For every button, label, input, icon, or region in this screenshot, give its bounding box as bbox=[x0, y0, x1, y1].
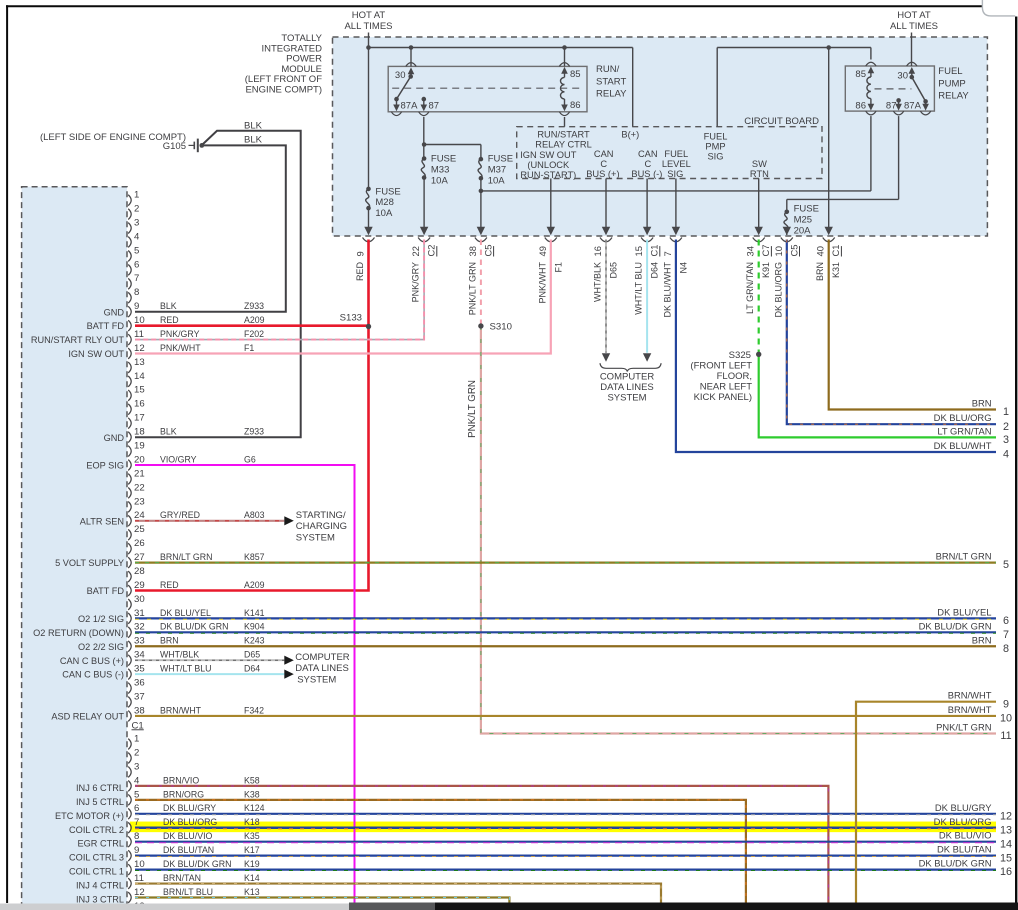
svg-text:M25: M25 bbox=[794, 214, 812, 225]
svg-text:11: 11 bbox=[134, 329, 144, 340]
svg-text:FUEL: FUEL bbox=[704, 132, 728, 142]
svg-text:22: 22 bbox=[134, 482, 145, 493]
svg-text:A209: A209 bbox=[244, 315, 265, 325]
svg-text:CHARGING: CHARGING bbox=[296, 521, 347, 532]
svg-text:K124: K124 bbox=[244, 803, 265, 813]
svg-text:9: 9 bbox=[134, 845, 139, 856]
svg-text:M33: M33 bbox=[431, 164, 449, 175]
svg-text:BATT FD: BATT FD bbox=[87, 586, 125, 596]
svg-text:(FRONT LEFT: (FRONT LEFT bbox=[690, 360, 752, 371]
svg-text:1: 1 bbox=[1003, 406, 1009, 418]
svg-text:F1: F1 bbox=[244, 343, 254, 353]
svg-text:RUN/START RLY OUT: RUN/START RLY OUT bbox=[31, 335, 124, 345]
svg-text:10A: 10A bbox=[488, 175, 506, 186]
svg-text:RTN: RTN bbox=[750, 169, 769, 179]
svg-text:O2 1/2 SIG: O2 1/2 SIG bbox=[78, 614, 124, 624]
svg-text:F1: F1 bbox=[553, 262, 563, 273]
svg-text:9: 9 bbox=[1003, 698, 1009, 710]
svg-text:DK BLU/GRY: DK BLU/GRY bbox=[935, 802, 992, 813]
svg-text:PNK/WHT: PNK/WHT bbox=[160, 343, 201, 353]
svg-text:FUEL: FUEL bbox=[938, 66, 962, 77]
svg-text:FUSE: FUSE bbox=[794, 204, 819, 215]
svg-text:HOT AT: HOT AT bbox=[897, 10, 931, 21]
svg-text:FUSE: FUSE bbox=[375, 186, 400, 197]
svg-text:49: 49 bbox=[537, 246, 548, 256]
svg-text:BRN/LT GRN: BRN/LT GRN bbox=[936, 551, 992, 562]
svg-text:BLK: BLK bbox=[160, 301, 177, 311]
svg-text:SIG: SIG bbox=[667, 169, 683, 179]
svg-text:PNK/WHT: PNK/WHT bbox=[537, 262, 547, 304]
svg-text:K17: K17 bbox=[244, 845, 260, 855]
svg-text:K91: K91 bbox=[761, 262, 771, 278]
svg-text:38: 38 bbox=[134, 705, 145, 716]
svg-text:CAN C BUS (+): CAN C BUS (+) bbox=[60, 656, 124, 666]
svg-text:C5: C5 bbox=[482, 245, 493, 257]
svg-text:COMPUTER: COMPUTER bbox=[600, 372, 655, 383]
svg-text:24: 24 bbox=[134, 510, 145, 521]
svg-text:K141: K141 bbox=[244, 608, 265, 618]
svg-text:1: 1 bbox=[134, 190, 139, 201]
svg-text:Z933: Z933 bbox=[244, 427, 264, 437]
svg-text:RUN-START): RUN-START) bbox=[520, 170, 576, 180]
svg-text:PNK/GRY: PNK/GRY bbox=[160, 329, 200, 339]
svg-text:BRN/WHT: BRN/WHT bbox=[160, 705, 202, 715]
svg-text:18: 18 bbox=[134, 427, 145, 438]
svg-text:G105: G105 bbox=[163, 141, 186, 152]
svg-text:ALTR SEN: ALTR SEN bbox=[80, 516, 124, 526]
svg-text:31: 31 bbox=[134, 608, 145, 619]
svg-text:PNK/LT GRN: PNK/LT GRN bbox=[467, 380, 478, 438]
svg-text:DK BLU/TAN: DK BLU/TAN bbox=[937, 844, 992, 855]
svg-text:DK BLU/WHT: DK BLU/WHT bbox=[934, 440, 992, 451]
svg-text:O2 2/2 SIG: O2 2/2 SIG bbox=[78, 642, 124, 652]
svg-text:BLK: BLK bbox=[244, 120, 263, 131]
svg-text:ALL TIMES: ALL TIMES bbox=[344, 21, 392, 32]
svg-text:WHT/BLK: WHT/BLK bbox=[160, 650, 199, 660]
svg-text:3: 3 bbox=[1003, 434, 1009, 446]
svg-text:IGN SW OUT: IGN SW OUT bbox=[520, 150, 577, 160]
svg-text:BUS (+): BUS (+) bbox=[586, 169, 619, 179]
svg-text:RED: RED bbox=[160, 315, 179, 325]
svg-text:7: 7 bbox=[1003, 629, 1009, 641]
svg-text:5: 5 bbox=[134, 789, 139, 800]
svg-text:10: 10 bbox=[1000, 713, 1012, 725]
svg-text:S133: S133 bbox=[340, 313, 362, 324]
svg-text:RUN/: RUN/ bbox=[596, 64, 620, 75]
svg-text:C: C bbox=[600, 159, 607, 169]
svg-text:4: 4 bbox=[134, 231, 140, 242]
svg-text:S310: S310 bbox=[490, 322, 512, 333]
svg-text:BLK: BLK bbox=[244, 135, 263, 146]
svg-text:C2: C2 bbox=[426, 245, 437, 257]
svg-text:6: 6 bbox=[1003, 615, 1009, 627]
svg-text:DK BLU/ORG: DK BLU/ORG bbox=[163, 817, 217, 827]
svg-text:M37: M37 bbox=[488, 164, 506, 175]
svg-text:BRN: BRN bbox=[972, 398, 992, 409]
svg-text:K38: K38 bbox=[244, 789, 260, 799]
svg-text:LEVEL: LEVEL bbox=[662, 159, 691, 169]
svg-text:35: 35 bbox=[134, 664, 145, 675]
svg-text:16: 16 bbox=[592, 246, 603, 256]
svg-text:Z933: Z933 bbox=[244, 301, 264, 311]
svg-text:C1: C1 bbox=[649, 245, 660, 257]
svg-text:RED: RED bbox=[355, 262, 365, 282]
svg-text:8: 8 bbox=[1003, 643, 1009, 655]
svg-text:WHT/LT BLU: WHT/LT BLU bbox=[160, 664, 211, 674]
svg-text:CAN C BUS (-): CAN C BUS (-) bbox=[62, 670, 124, 680]
svg-text:26: 26 bbox=[134, 538, 145, 549]
svg-text:27: 27 bbox=[134, 552, 145, 563]
svg-text:16: 16 bbox=[134, 399, 145, 410]
svg-text:N4: N4 bbox=[678, 262, 688, 274]
svg-text:BRN/LT BLU: BRN/LT BLU bbox=[163, 887, 213, 897]
svg-text:ALL TIMES: ALL TIMES bbox=[890, 21, 938, 32]
svg-text:13: 13 bbox=[1000, 824, 1012, 836]
svg-text:85: 85 bbox=[855, 69, 866, 80]
svg-text:8: 8 bbox=[134, 831, 139, 842]
svg-text:O2 RETURN (DOWN): O2 RETURN (DOWN) bbox=[33, 628, 124, 638]
svg-text:DK BLU/DK GRN: DK BLU/DK GRN bbox=[919, 858, 992, 869]
svg-text:K35: K35 bbox=[244, 831, 260, 841]
svg-text:20A: 20A bbox=[794, 225, 812, 236]
svg-text:HOT AT: HOT AT bbox=[352, 10, 386, 21]
svg-text:INJ 5 CTRL: INJ 5 CTRL bbox=[76, 797, 124, 807]
svg-text:5: 5 bbox=[134, 245, 139, 256]
svg-text:F202: F202 bbox=[244, 329, 264, 339]
svg-text:COIL CTRL 1: COIL CTRL 1 bbox=[69, 867, 124, 877]
svg-text:2: 2 bbox=[134, 204, 139, 215]
svg-text:SYSTEM: SYSTEM bbox=[297, 675, 336, 686]
svg-text:DK BLU/DK GRN: DK BLU/DK GRN bbox=[919, 620, 992, 631]
svg-text:25: 25 bbox=[134, 524, 145, 535]
svg-text:BRN/WHT: BRN/WHT bbox=[948, 690, 992, 701]
svg-text:13: 13 bbox=[134, 357, 145, 368]
svg-text:GRY/RED: GRY/RED bbox=[160, 510, 200, 520]
svg-text:SW: SW bbox=[752, 159, 767, 169]
svg-text:DK BLU/VIO: DK BLU/VIO bbox=[939, 830, 992, 841]
svg-text:1: 1 bbox=[134, 733, 139, 744]
svg-text:87: 87 bbox=[429, 101, 440, 112]
svg-text:DK BLU/ORG: DK BLU/ORG bbox=[934, 816, 992, 827]
svg-text:2: 2 bbox=[1003, 421, 1009, 433]
svg-text:GND: GND bbox=[104, 307, 125, 317]
svg-text:DK BLU/WHT: DK BLU/WHT bbox=[662, 262, 672, 318]
svg-text:DATA LINES: DATA LINES bbox=[295, 663, 349, 674]
svg-text:C5: C5 bbox=[788, 245, 799, 257]
svg-text:SIG: SIG bbox=[707, 152, 723, 162]
svg-text:23: 23 bbox=[134, 496, 145, 507]
svg-text:38: 38 bbox=[467, 246, 478, 256]
svg-text:M28: M28 bbox=[375, 197, 393, 208]
svg-text:7: 7 bbox=[134, 817, 139, 828]
svg-text:BUS (-): BUS (-) bbox=[631, 169, 662, 179]
svg-text:5 VOLT SUPPLY: 5 VOLT SUPPLY bbox=[55, 558, 124, 568]
svg-text:K243: K243 bbox=[244, 636, 265, 646]
svg-text:K18: K18 bbox=[244, 817, 260, 827]
svg-text:LT GRN/TAN: LT GRN/TAN bbox=[745, 262, 755, 314]
svg-text:DK BLU/YEL: DK BLU/YEL bbox=[160, 608, 211, 618]
svg-text:ENGINE COMPT): ENGINE COMPT) bbox=[245, 85, 322, 96]
svg-text:28: 28 bbox=[134, 566, 145, 577]
svg-text:20: 20 bbox=[134, 454, 145, 465]
svg-text:3: 3 bbox=[134, 217, 139, 228]
svg-text:EOP SIG: EOP SIG bbox=[86, 461, 124, 471]
svg-text:DK BLU/DK GRN: DK BLU/DK GRN bbox=[160, 622, 228, 632]
svg-text:CIRCUIT BOARD: CIRCUIT BOARD bbox=[744, 116, 819, 127]
svg-text:15: 15 bbox=[134, 385, 145, 396]
svg-text:40: 40 bbox=[815, 246, 826, 256]
svg-text:RUN/START: RUN/START bbox=[537, 130, 590, 140]
svg-text:D64: D64 bbox=[244, 664, 260, 674]
svg-text:3: 3 bbox=[134, 761, 139, 772]
svg-text:DATA LINES: DATA LINES bbox=[600, 382, 654, 393]
svg-text:FLOOR,: FLOOR, bbox=[717, 371, 752, 382]
svg-text:BRN: BRN bbox=[815, 262, 825, 281]
svg-text:A803: A803 bbox=[244, 510, 265, 520]
svg-text:SYSTEM: SYSTEM bbox=[296, 532, 335, 543]
svg-text:BATT FD: BATT FD bbox=[87, 321, 125, 331]
svg-text:21: 21 bbox=[134, 468, 145, 479]
svg-text:7: 7 bbox=[134, 273, 139, 284]
svg-text:SYSTEM: SYSTEM bbox=[607, 393, 646, 404]
svg-text:87: 87 bbox=[886, 100, 897, 111]
svg-text:G6: G6 bbox=[244, 454, 256, 464]
svg-text:PMP: PMP bbox=[705, 142, 725, 152]
svg-text:34: 34 bbox=[134, 650, 145, 661]
svg-text:BRN/VIO: BRN/VIO bbox=[163, 775, 199, 785]
svg-text:K19: K19 bbox=[244, 859, 260, 869]
svg-text:(UNLOCK: (UNLOCK bbox=[527, 160, 570, 170]
svg-text:10A: 10A bbox=[431, 175, 449, 186]
svg-text:14: 14 bbox=[1000, 838, 1012, 850]
svg-text:DK BLU/GRY: DK BLU/GRY bbox=[163, 803, 216, 813]
svg-text:87A: 87A bbox=[401, 101, 419, 112]
svg-text:4: 4 bbox=[1003, 449, 1009, 461]
svg-text:30: 30 bbox=[134, 594, 145, 605]
svg-text:PNK/GRY: PNK/GRY bbox=[411, 262, 421, 302]
svg-text:PUMP: PUMP bbox=[938, 78, 965, 89]
svg-text:6: 6 bbox=[134, 803, 139, 814]
svg-text:STARTING/: STARTING/ bbox=[296, 510, 346, 521]
svg-text:ASD RELAY OUT: ASD RELAY OUT bbox=[51, 712, 124, 722]
svg-text:7: 7 bbox=[662, 251, 673, 256]
svg-text:BLK: BLK bbox=[160, 427, 177, 437]
svg-text:D65: D65 bbox=[609, 262, 619, 279]
svg-text:RED: RED bbox=[160, 580, 179, 590]
svg-text:START: START bbox=[596, 76, 626, 87]
svg-text:D65: D65 bbox=[244, 650, 260, 660]
svg-text:A209: A209 bbox=[244, 580, 265, 590]
svg-text:BRN/TAN: BRN/TAN bbox=[163, 873, 201, 883]
svg-text:INJ 3 CTRL: INJ 3 CTRL bbox=[76, 895, 124, 905]
svg-text:12: 12 bbox=[1000, 810, 1012, 822]
svg-text:2: 2 bbox=[134, 747, 139, 758]
svg-text:DK BLU/ORG: DK BLU/ORG bbox=[934, 412, 992, 423]
svg-text:34: 34 bbox=[745, 246, 756, 256]
svg-text:DK BLU/VIO: DK BLU/VIO bbox=[163, 831, 213, 841]
svg-text:ETC MOTOR (+): ETC MOTOR (+) bbox=[55, 811, 124, 821]
svg-text:15: 15 bbox=[633, 246, 644, 256]
svg-text:PNK/LT GRN: PNK/LT GRN bbox=[467, 262, 477, 315]
svg-text:30: 30 bbox=[897, 71, 908, 82]
svg-text:K31: K31 bbox=[831, 262, 841, 278]
svg-text:85: 85 bbox=[570, 69, 581, 80]
svg-text:19: 19 bbox=[134, 441, 145, 452]
svg-text:BRN: BRN bbox=[972, 634, 992, 645]
svg-text:BRN: BRN bbox=[160, 636, 179, 646]
svg-text:DK BLU/YEL: DK BLU/YEL bbox=[937, 606, 991, 617]
svg-text:K857: K857 bbox=[244, 552, 265, 562]
svg-text:D64: D64 bbox=[650, 262, 660, 279]
svg-text:5: 5 bbox=[1003, 559, 1009, 571]
svg-text:9: 9 bbox=[355, 251, 366, 256]
svg-text:FUSE: FUSE bbox=[431, 154, 456, 165]
svg-text:WHT/LT BLU: WHT/LT BLU bbox=[634, 262, 644, 315]
svg-text:22: 22 bbox=[410, 246, 421, 256]
svg-text:BRN/LT GRN: BRN/LT GRN bbox=[160, 552, 212, 562]
svg-text:K58: K58 bbox=[244, 775, 260, 785]
svg-text:COMPUTER: COMPUTER bbox=[295, 652, 350, 663]
svg-text:C: C bbox=[644, 159, 651, 169]
svg-text:17: 17 bbox=[134, 413, 145, 424]
svg-text:KICK PANEL): KICK PANEL) bbox=[694, 392, 752, 403]
svg-text:K904: K904 bbox=[244, 622, 265, 632]
svg-text:LT GRN/TAN: LT GRN/TAN bbox=[937, 425, 991, 436]
svg-text:10: 10 bbox=[773, 246, 784, 256]
svg-text:IGN SW OUT: IGN SW OUT bbox=[68, 349, 124, 359]
svg-text:11: 11 bbox=[134, 873, 144, 884]
svg-text:86: 86 bbox=[570, 100, 581, 111]
svg-text:F342: F342 bbox=[244, 705, 264, 715]
svg-text:14: 14 bbox=[134, 371, 145, 382]
svg-text:FUEL: FUEL bbox=[664, 149, 688, 159]
svg-text:33: 33 bbox=[134, 636, 145, 647]
svg-text:VIO/GRY: VIO/GRY bbox=[160, 454, 197, 464]
svg-text:30: 30 bbox=[395, 70, 406, 81]
svg-text:CAN: CAN bbox=[638, 149, 658, 159]
svg-text:DK BLU/ORG: DK BLU/ORG bbox=[773, 262, 783, 318]
svg-text:87A: 87A bbox=[904, 100, 922, 111]
svg-text:COIL CTRL 3: COIL CTRL 3 bbox=[69, 853, 124, 863]
svg-text:COIL CTRL 2: COIL CTRL 2 bbox=[69, 825, 124, 835]
svg-text:BRN/WHT: BRN/WHT bbox=[948, 704, 992, 715]
svg-text:CAN: CAN bbox=[594, 149, 614, 159]
svg-text:K13: K13 bbox=[244, 887, 260, 897]
svg-text:RELAY: RELAY bbox=[596, 89, 627, 100]
svg-text:S325: S325 bbox=[729, 350, 751, 361]
svg-text:EGR CTRL: EGR CTRL bbox=[78, 839, 124, 849]
svg-text:12: 12 bbox=[134, 887, 145, 898]
svg-text:C1: C1 bbox=[830, 245, 841, 257]
svg-text:DK BLU/DK GRN: DK BLU/DK GRN bbox=[163, 859, 231, 869]
svg-text:FUSE: FUSE bbox=[488, 154, 513, 165]
svg-text:NEAR LEFT: NEAR LEFT bbox=[700, 382, 752, 393]
svg-text:10: 10 bbox=[134, 859, 145, 870]
svg-text:RELAY CTRL: RELAY CTRL bbox=[535, 140, 592, 150]
svg-text:WHT/BLK: WHT/BLK bbox=[593, 262, 603, 302]
svg-text:36: 36 bbox=[134, 677, 145, 688]
svg-text:86: 86 bbox=[855, 101, 866, 112]
svg-text:GND: GND bbox=[104, 433, 125, 443]
svg-text:9: 9 bbox=[134, 301, 139, 312]
svg-text:4: 4 bbox=[134, 775, 140, 786]
svg-text:15: 15 bbox=[1000, 852, 1012, 864]
svg-text:INJ 4 CTRL: INJ 4 CTRL bbox=[76, 881, 124, 891]
svg-text:RELAY: RELAY bbox=[938, 91, 969, 102]
svg-text:6: 6 bbox=[134, 259, 139, 270]
svg-text:K14: K14 bbox=[244, 873, 260, 883]
svg-text:37: 37 bbox=[134, 691, 145, 702]
svg-text:32: 32 bbox=[134, 622, 145, 633]
svg-text:10A: 10A bbox=[375, 208, 393, 219]
svg-text:8: 8 bbox=[134, 287, 139, 298]
svg-text:PNK/LT GRN: PNK/LT GRN bbox=[936, 722, 991, 733]
svg-text:BRN/ORG: BRN/ORG bbox=[163, 789, 204, 799]
svg-text:12: 12 bbox=[134, 343, 145, 354]
svg-text:INJ 6 CTRL: INJ 6 CTRL bbox=[76, 783, 124, 793]
svg-text:C7: C7 bbox=[760, 245, 771, 257]
svg-text:16: 16 bbox=[1000, 866, 1012, 878]
svg-text:11: 11 bbox=[1000, 730, 1011, 742]
svg-text:C1: C1 bbox=[132, 720, 144, 731]
svg-text:B(+): B(+) bbox=[621, 130, 639, 140]
svg-text:DK BLU/TAN: DK BLU/TAN bbox=[163, 845, 214, 855]
